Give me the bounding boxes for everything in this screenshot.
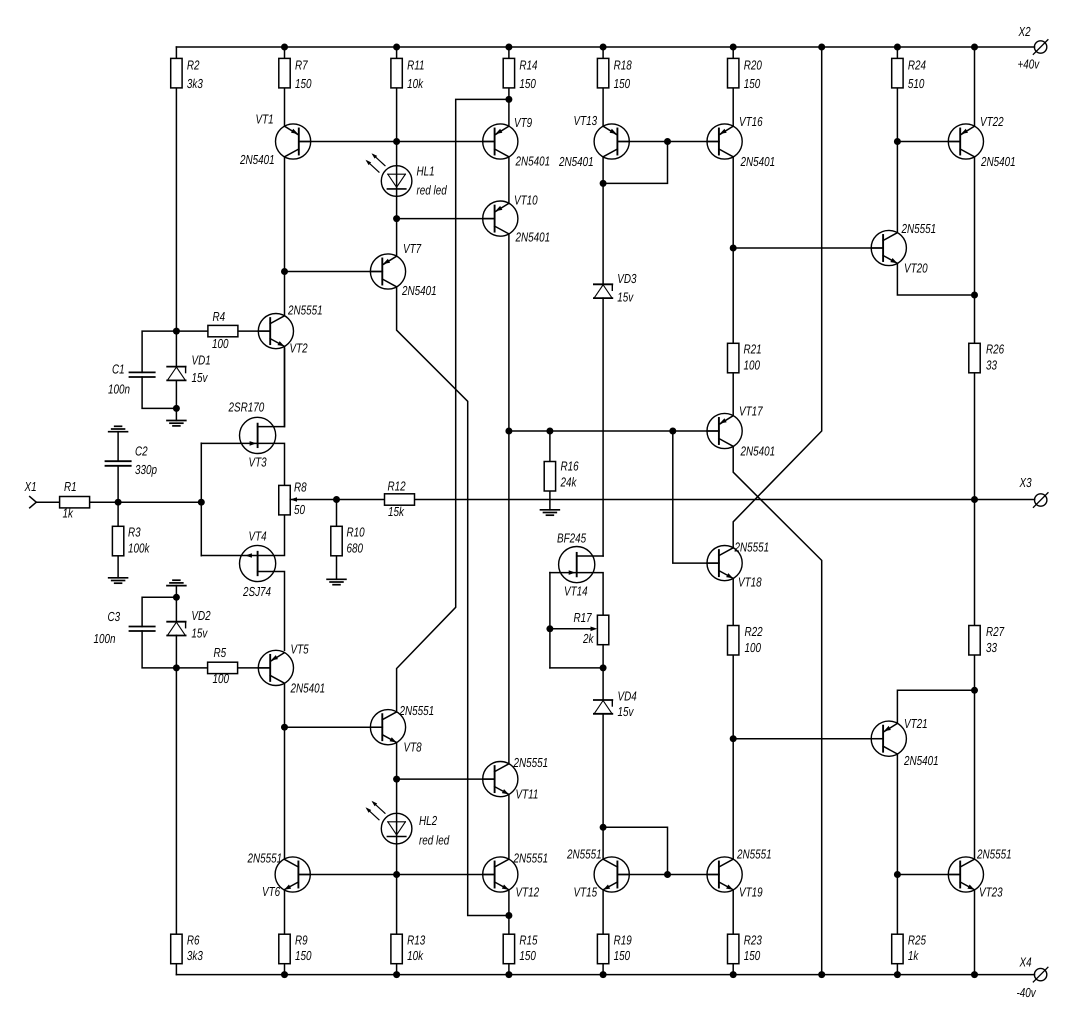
svg-text:VT9: VT9 [514,115,532,130]
svg-text:VT19: VT19 [739,885,763,900]
svg-text:15v: 15v [191,626,208,641]
svg-text:24k: 24k [560,474,578,489]
svg-text:100: 100 [744,358,761,373]
svg-text:VT16: VT16 [739,114,763,129]
svg-text:X1: X1 [24,479,37,494]
svg-text:VT8: VT8 [404,740,423,755]
svg-text:VD2: VD2 [191,608,211,623]
svg-text:2N5551: 2N5551 [736,847,771,862]
svg-text:VT13: VT13 [574,113,598,128]
svg-text:R16: R16 [561,459,580,474]
svg-text:VT14: VT14 [564,584,588,599]
svg-text:red led: red led [419,833,450,848]
svg-text:-40v: -40v [1017,985,1037,1000]
svg-text:R22: R22 [745,624,764,639]
svg-text:R6: R6 [187,932,200,947]
svg-text:15v: 15v [618,704,635,719]
svg-text:C2: C2 [135,444,148,459]
svg-text:2N5551: 2N5551 [976,847,1011,862]
svg-text:2N5401: 2N5401 [515,154,550,169]
svg-text:VT17: VT17 [739,404,763,419]
svg-text:33: 33 [986,358,998,373]
svg-text:15k: 15k [388,504,405,519]
svg-text:VT18: VT18 [738,575,762,590]
svg-text:R14: R14 [519,57,537,72]
svg-text:510: 510 [908,76,925,91]
svg-text:R13: R13 [407,932,426,947]
svg-text:R15: R15 [519,932,538,947]
svg-text:1k: 1k [63,506,75,521]
svg-text:2N5401: 2N5401 [903,753,938,768]
svg-text:C1: C1 [112,362,125,377]
svg-text:100: 100 [213,671,230,686]
svg-text:VT3: VT3 [249,455,268,470]
svg-text:10k: 10k [407,948,424,963]
svg-text:100k: 100k [128,540,151,555]
svg-text:100: 100 [212,336,229,351]
svg-text:1k: 1k [908,948,920,963]
svg-text:R20: R20 [744,57,763,72]
svg-text:R17: R17 [574,610,593,625]
svg-text:R2: R2 [187,57,200,72]
svg-text:33: 33 [986,640,998,655]
svg-text:VD3: VD3 [617,271,637,286]
svg-text:VT4: VT4 [249,529,267,544]
svg-text:VT2: VT2 [290,341,309,356]
svg-text:R19: R19 [614,932,632,947]
svg-text:VT12: VT12 [516,884,540,899]
svg-text:R8: R8 [294,480,307,495]
svg-text:50: 50 [294,502,306,517]
svg-text:VT22: VT22 [980,114,1004,129]
svg-text:2N5401: 2N5401 [401,283,436,298]
svg-text:R27: R27 [986,624,1005,639]
svg-text:X2: X2 [1018,24,1031,39]
svg-text:R1: R1 [64,479,77,494]
svg-text:150: 150 [744,948,761,963]
svg-text:R4: R4 [213,309,226,324]
svg-text:100: 100 [745,640,762,655]
svg-text:2N5401: 2N5401 [558,154,593,169]
svg-text:R5: R5 [214,645,227,660]
svg-text:100n: 100n [94,631,116,646]
svg-text:3k3: 3k3 [187,76,204,91]
svg-text:15v: 15v [617,290,634,305]
svg-text:150: 150 [519,948,536,963]
svg-text:R24: R24 [908,57,926,72]
svg-text:150: 150 [614,76,631,91]
svg-text:150: 150 [519,76,536,91]
svg-text:2N5551: 2N5551 [901,221,936,236]
svg-text:BF245: BF245 [557,531,587,546]
svg-text:2N5401: 2N5401 [740,444,775,459]
svg-text:X3: X3 [1019,475,1032,490]
svg-text:2N5401: 2N5401 [980,154,1015,169]
svg-text:R10: R10 [347,525,366,540]
svg-text:R25: R25 [908,932,927,947]
svg-text:VT23: VT23 [979,885,1003,900]
svg-text:2N5551: 2N5551 [247,851,282,866]
svg-text:2N5401: 2N5401 [239,152,274,167]
svg-text:VD1: VD1 [192,353,211,368]
svg-text:R3: R3 [128,525,141,540]
svg-text:HL2: HL2 [419,813,438,828]
svg-text:VT7: VT7 [403,241,422,256]
svg-text:VT1: VT1 [256,112,274,127]
svg-text:+40v: +40v [1018,56,1041,71]
svg-text:2N5551: 2N5551 [513,755,548,770]
svg-text:R23: R23 [744,932,763,947]
svg-text:VT15: VT15 [574,885,598,900]
svg-text:2N5401: 2N5401 [740,154,775,169]
svg-text:R11: R11 [407,57,424,72]
svg-text:10k: 10k [407,76,424,91]
svg-text:R18: R18 [614,57,633,72]
svg-text:R21: R21 [744,341,762,356]
svg-text:150: 150 [614,948,631,963]
svg-text:X4: X4 [1019,955,1032,970]
svg-text:VT6: VT6 [262,884,281,899]
svg-text:VT11: VT11 [516,787,539,802]
svg-text:VT10: VT10 [514,193,538,208]
svg-text:330p: 330p [135,462,157,477]
svg-text:150: 150 [295,948,312,963]
svg-text:R12: R12 [388,479,407,494]
svg-text:C3: C3 [108,609,121,624]
svg-text:2SR170: 2SR170 [228,400,265,415]
svg-text:2N5551: 2N5551 [566,847,601,862]
svg-text:2N5551: 2N5551 [734,540,769,555]
svg-text:HL1: HL1 [417,164,435,179]
svg-text:VT5: VT5 [291,642,310,657]
svg-text:2N5551: 2N5551 [399,703,434,718]
svg-text:VD4: VD4 [618,689,637,704]
svg-text:100n: 100n [108,382,130,397]
svg-text:150: 150 [295,76,312,91]
svg-text:680: 680 [347,540,364,555]
svg-text:150: 150 [744,76,761,91]
svg-text:2N5551: 2N5551 [513,851,548,866]
svg-text:red led: red led [417,183,448,198]
svg-text:2N5401: 2N5401 [515,230,550,245]
svg-text:R9: R9 [295,932,308,947]
svg-text:R26: R26 [986,341,1005,356]
svg-text:15v: 15v [192,370,209,385]
svg-text:VT21: VT21 [904,716,928,731]
svg-text:2k: 2k [582,631,594,646]
svg-text:2N5401: 2N5401 [290,681,325,696]
svg-text:2SJ74: 2SJ74 [242,584,271,599]
svg-text:2N5551: 2N5551 [287,303,322,318]
svg-text:3k3: 3k3 [187,948,204,963]
svg-text:VT20: VT20 [904,261,928,276]
svg-text:R7: R7 [295,57,308,72]
